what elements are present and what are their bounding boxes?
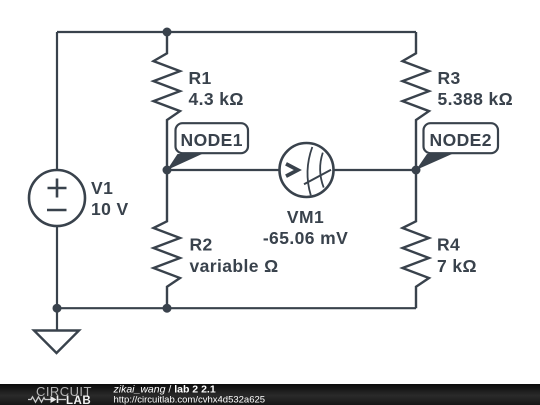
- label V1: [91, 178, 129, 219]
- wire node1 to voltmeter: [167, 169, 280, 171]
- svg-text:VM1: VM1: [287, 207, 324, 227]
- wire top rail: [57, 31, 416, 33]
- svg-text:R3: R3: [438, 68, 461, 88]
- svg-text:-65.06 mV: -65.06 mV: [263, 228, 348, 248]
- svg-text:5.388 kΩ: 5.388 kΩ: [438, 89, 514, 109]
- svg-text:NODE1: NODE1: [181, 130, 243, 150]
- svg-text:R4: R4: [437, 235, 460, 255]
- wire bottom rail: [57, 307, 416, 309]
- resistor R4: [403, 170, 430, 308]
- svg-text:V1: V1: [91, 178, 113, 198]
- svg-text:7 kΩ: 7 kΩ: [437, 256, 477, 276]
- voltmeter VM1: [280, 143, 334, 197]
- junction dot NODE1: [163, 166, 172, 175]
- svg-text:http://circuitlab.com/cvhx4d53: http://circuitlab.com/cvhx4d532a625: [114, 395, 266, 405]
- voltage source V1: [29, 170, 85, 226]
- resistor R1: [154, 32, 181, 170]
- wire V1 to ground: [56, 226, 58, 331]
- label R3: [438, 68, 514, 109]
- junction dot ground node: [53, 304, 62, 313]
- label R4: [437, 235, 477, 277]
- svg-text:4.3 kΩ: 4.3 kΩ: [189, 89, 244, 109]
- footer credit text: [113, 384, 266, 405]
- svg-text:variable Ω: variable Ω: [190, 256, 279, 276]
- svg-text:R1: R1: [189, 68, 212, 88]
- footer bar: [0, 384, 540, 405]
- label R2: [190, 235, 279, 277]
- resistor R3: [403, 32, 430, 170]
- wire voltmeter to node2: [334, 169, 417, 171]
- node NODE2 flag: [416, 123, 498, 170]
- wire left branch V1 top: [56, 32, 58, 170]
- resistor R2: [154, 170, 181, 308]
- node NODE1 flag: [167, 123, 248, 170]
- junction dot R2 bottom: [163, 304, 172, 313]
- junction dot NODE2: [412, 166, 421, 175]
- svg-text:LAB: LAB: [66, 395, 91, 405]
- svg-text:R2: R2: [190, 235, 213, 255]
- ground: [34, 331, 79, 354]
- svg-text:10 V: 10 V: [91, 199, 129, 219]
- label VM1: [263, 207, 348, 248]
- svg-text:NODE2: NODE2: [430, 130, 492, 150]
- label R1: [189, 68, 244, 109]
- CircuitLab logo: [28, 384, 92, 405]
- junction dot top of R1: [163, 28, 172, 37]
